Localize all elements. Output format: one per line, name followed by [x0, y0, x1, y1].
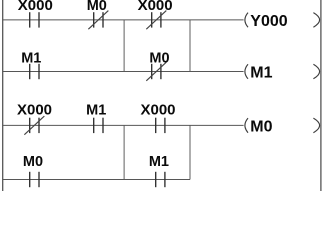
svg-text:X000: X000: [140, 101, 175, 118]
svg-text:M1: M1: [149, 154, 169, 170]
svg-text:M0: M0: [87, 0, 107, 14]
svg-text:X000: X000: [138, 0, 173, 14]
svg-text:M0: M0: [23, 154, 43, 170]
svg-text:Y000: Y000: [250, 13, 287, 30]
svg-text:X000: X000: [18, 0, 53, 14]
svg-text:M1: M1: [86, 102, 106, 118]
svg-text:M1: M1: [250, 64, 272, 81]
svg-text:M1: M1: [21, 50, 41, 66]
svg-text:M0: M0: [149, 50, 169, 66]
svg-text:X000: X000: [17, 101, 52, 118]
svg-text:M0: M0: [250, 118, 272, 135]
